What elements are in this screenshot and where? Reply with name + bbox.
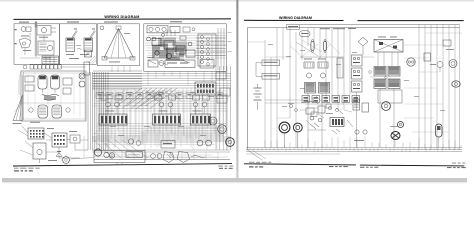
svg-text:WIRING DIAGRAM: WIRING DIAGRAM [279, 16, 312, 20]
svg-text:WIRING DIAGRAM: WIRING DIAGRAM [104, 15, 139, 19]
